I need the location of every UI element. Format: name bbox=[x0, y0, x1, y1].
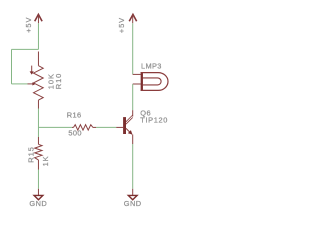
svg-text:1K: 1K bbox=[41, 155, 50, 166]
supply +5V right bbox=[129, 14, 136, 23]
resistor R15 top pin bbox=[37, 137, 39, 144]
svg-text:500: 500 bbox=[68, 129, 82, 138]
resistor R16 body zigzag bbox=[74, 125, 93, 130]
wire loop top horizontal bbox=[12, 48, 39, 50]
svg-text:LMP3: LMP3 bbox=[141, 62, 162, 71]
svg-text:TIP120: TIP120 bbox=[140, 115, 168, 124]
wire R15 to GND bbox=[37, 170, 39, 189]
svg-text:+5V: +5V bbox=[117, 17, 126, 33]
lamp LMP3 filament bbox=[143, 78, 162, 85]
transistor Q6 collector pin bbox=[132, 110, 134, 116]
wire +5V right to lamp bbox=[132, 23, 134, 74]
lamp LMP3 bulb outline bbox=[141, 73, 168, 91]
svg-text:GND: GND bbox=[29, 199, 47, 208]
resistor R16 right pin bbox=[93, 126, 96, 128]
potentiometer R10 body zigzag bbox=[34, 66, 44, 100]
wire +5V left to junction bbox=[37, 23, 39, 49]
supply +5V left bbox=[35, 14, 42, 23]
wire loop bottom horizontal to wiper bbox=[12, 83, 28, 85]
transistor Q6 emitter bbox=[126, 128, 132, 134]
potentiometer R10 bottom pin bbox=[37, 100, 39, 108]
wire R16 to base bbox=[96, 126, 116, 128]
transistor Q6 base bar bbox=[123, 117, 126, 134]
resistor R16 left pin bbox=[72, 126, 74, 128]
wire emitter to GND bbox=[132, 144, 134, 189]
potentiometer R10 top pin bbox=[37, 52, 39, 66]
resistor R15 bottom pin bbox=[37, 160, 39, 170]
ground right pin bbox=[132, 189, 134, 196]
ground right symbol bbox=[128, 195, 137, 199]
transistor Q6 base pin bbox=[116, 126, 123, 128]
transistor Q6 emitter pin bbox=[132, 135, 134, 145]
resistor R15 body zigzag bbox=[35, 144, 42, 160]
svg-text:R10: R10 bbox=[54, 73, 63, 89]
svg-text:+5V: +5V bbox=[24, 17, 33, 33]
lamp LMP3 pin bottom bbox=[133, 83, 141, 85]
wire lamp to collector bbox=[132, 84, 134, 110]
node base wire junction bbox=[38, 126, 72, 128]
lamp LMP3 base bar bbox=[141, 72, 143, 91]
potentiometer R10 wiper arrow bbox=[28, 82, 36, 85]
wire pot to node bbox=[37, 109, 39, 138]
ground left symbol bbox=[34, 195, 43, 199]
potentiometer R10 trim arrow bbox=[30, 66, 34, 75]
svg-text:GND: GND bbox=[124, 199, 142, 208]
svg-text:R16: R16 bbox=[67, 111, 82, 120]
lamp LMP3 pin top bbox=[133, 73, 141, 75]
ground left pin bbox=[37, 189, 39, 196]
transistor Q6 collector double line bbox=[126, 115, 133, 124]
wire loop left vertical bbox=[11, 49, 13, 84]
svg-text:R15: R15 bbox=[26, 146, 35, 162]
